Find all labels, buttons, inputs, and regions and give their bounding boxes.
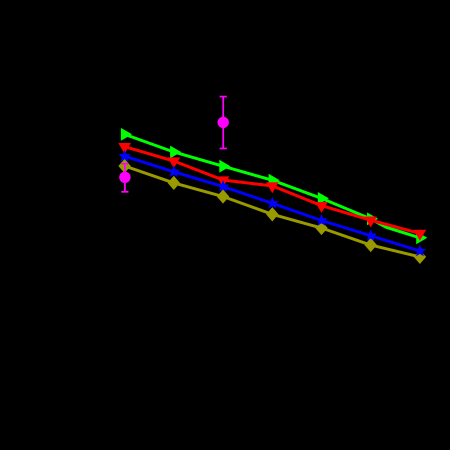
blue star marker 7 [414,245,426,257]
blue star marker 6 [365,229,377,241]
olive diamond marker 7 [414,250,426,264]
red down-triangle marker 6 [364,217,377,228]
olive diamond marker 1 [118,159,130,173]
olive diamond marker 3 [217,189,229,203]
blue star marker 3 [217,180,229,192]
green right-triangle marker 7 [416,231,427,244]
magenta circle marker 2 [218,117,229,128]
magenta error bar 2 [220,97,227,149]
magenta error bar 1 [121,164,128,192]
olive diamond marker 5 [315,221,327,235]
green right-triangle marker 2 [170,146,181,159]
red down-triangle marker 7 [414,230,427,241]
magenta circle marker 1 [119,172,130,183]
green right-triangle marker 1 [121,128,132,141]
olive diamond marker 6 [365,238,377,252]
green series line [125,134,420,238]
blue star marker 2 [168,165,180,177]
blue series line [125,156,420,251]
green right-triangle marker 6 [367,212,378,225]
green right-triangle marker 5 [318,192,329,205]
red down-triangle marker 2 [167,157,180,168]
red down-triangle marker 3 [217,176,230,187]
red down-triangle marker 1 [118,143,131,154]
olive diamond marker 4 [266,207,278,221]
olive series line [125,166,420,257]
blue star marker 4 [266,197,278,209]
blue star marker 5 [315,214,327,226]
red down-triangle marker 4 [266,182,279,193]
green right-triangle marker 3 [219,160,230,173]
red down-triangle marker 5 [315,202,328,213]
green right-triangle marker 4 [269,174,280,187]
blue star marker 1 [118,150,130,162]
olive diamond marker 2 [168,176,180,190]
red series line [125,147,420,234]
